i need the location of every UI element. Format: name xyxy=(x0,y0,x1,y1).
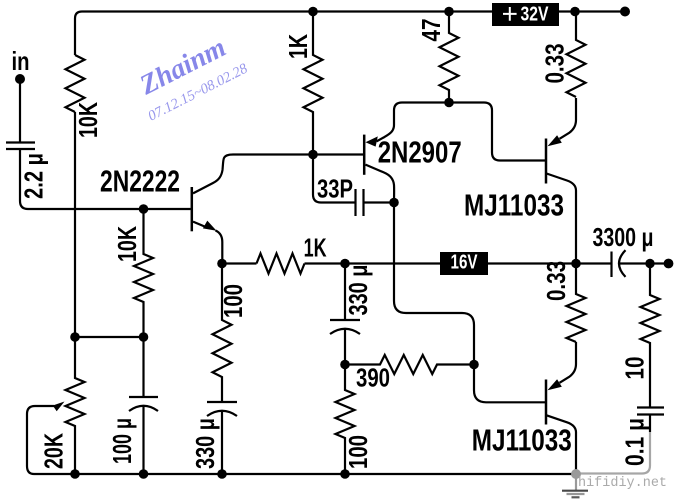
wire input to cap xyxy=(19,79,21,142)
svg-text:100: 100 xyxy=(343,435,373,469)
resistor 1K (feedback) xyxy=(257,254,305,274)
node 33P right xyxy=(389,198,399,208)
node (75,474) xyxy=(70,469,80,479)
wiper arrowhead xyxy=(53,402,65,412)
node Q1 emitter / 1K left xyxy=(217,259,227,269)
capacitor 0.1u xyxy=(637,408,664,433)
svg-text:2.2 μ: 2.2 μ xyxy=(19,153,49,199)
wire node to 33P cap xyxy=(313,155,356,203)
wire 10K bottom to node (75,337) xyxy=(74,112,76,337)
wiper wire of 20K pot xyxy=(27,406,54,474)
resistor 100 (right) xyxy=(336,365,355,475)
svg-text:10K: 10K xyxy=(112,226,142,262)
svg-text:330 μ: 330 μ xyxy=(343,265,373,316)
svg-text:10K: 10K xyxy=(73,102,103,138)
resistor 10K (left bias upper) xyxy=(66,55,85,112)
capacitor 100u xyxy=(129,337,158,474)
wire 47 node to Q3 base xyxy=(449,103,545,161)
node top of 0.33 xyxy=(570,7,580,17)
node output rail mid xyxy=(571,259,581,269)
svg-text:2N2222: 2N2222 xyxy=(100,164,180,199)
capacitor 330u (right) xyxy=(330,264,360,365)
resistor 390 xyxy=(345,355,474,374)
wire gray rail segment to ground node xyxy=(576,432,650,478)
ground xyxy=(575,478,577,490)
node 390 left xyxy=(340,360,350,370)
capacitor 2.2u xyxy=(6,143,35,150)
wire node row y=337 xyxy=(75,336,144,338)
wire output rail xyxy=(222,262,669,264)
wire Q4 collector to ground rail xyxy=(547,415,577,474)
node (222,474) xyxy=(217,469,227,479)
svg-text:in: in xyxy=(12,46,30,76)
wire 33P node down and over to driver xyxy=(394,203,474,365)
wire top rail +32V xyxy=(75,12,625,56)
svg-text:1K: 1K xyxy=(304,232,327,262)
node (143.5,337) xyxy=(139,332,149,342)
svg-text:10: 10 xyxy=(620,357,650,380)
svg-text:0.33: 0.33 xyxy=(541,261,571,301)
Q3 emitter arrowhead xyxy=(548,135,562,146)
node base divider junction xyxy=(139,204,149,214)
Q1 emitter arrowhead xyxy=(203,221,217,231)
node input terminal xyxy=(15,74,25,84)
node 47 bottom xyxy=(444,98,454,108)
svg-text:hifidiy.net: hifidiy.net xyxy=(578,475,667,491)
node output terminal xyxy=(664,259,674,269)
label 16V box xyxy=(440,252,488,275)
wire Q2 collector xyxy=(366,165,395,203)
potentiometer 20K xyxy=(66,337,85,474)
resistor 10 (Zobel) xyxy=(641,264,660,408)
svg-text:16V: 16V xyxy=(451,252,478,274)
wire 390 node to Q4 base xyxy=(474,365,545,403)
node 1K bottom xyxy=(308,150,318,160)
svg-text:100 μ: 100 μ xyxy=(107,418,137,464)
wire cap to base of 2N2222 xyxy=(20,149,191,209)
resistor 0.33 (top) xyxy=(567,12,586,98)
node +32V terminal xyxy=(620,7,630,17)
svg-text:MJ11033: MJ11033 xyxy=(464,188,564,223)
wire Q3 emitter from 0.33 xyxy=(560,98,577,139)
transistor Q4 MJ11033 bar xyxy=(545,380,548,425)
transistor Q2 2N2907 bar xyxy=(363,135,366,175)
node (75,337) xyxy=(70,332,80,342)
node 390 right xyxy=(469,360,479,370)
svg-text:3300 μ: 3300 μ xyxy=(593,222,654,252)
svg-text:32V: 32V xyxy=(521,4,550,26)
resistor 0.33 (bottom) xyxy=(567,264,586,343)
wire Q4 emitter from 0.33 xyxy=(560,342,577,383)
capacitor 330u (left) xyxy=(207,402,237,474)
svg-text:47: 47 xyxy=(416,19,446,42)
resistor 10K (lower bias) xyxy=(134,209,153,337)
svg-text:2N2907: 2N2907 xyxy=(378,134,462,169)
svg-text:330 μ: 330 μ xyxy=(190,418,220,469)
Q4 emitter arrowhead xyxy=(548,379,562,390)
capacitor 33P xyxy=(356,189,395,216)
node Zobel top xyxy=(645,259,654,268)
capacitor 3300u xyxy=(612,250,626,277)
node top of 1K xyxy=(308,7,318,17)
node (143.5,474) xyxy=(139,469,149,479)
svg-text:33P: 33P xyxy=(317,174,353,204)
node ground junction (gray) xyxy=(571,469,581,479)
transistor Q3 MJ11033 bar xyxy=(545,139,548,184)
wire Q1 emitter xyxy=(193,222,222,264)
wire Q3 collector to output rail xyxy=(547,174,577,264)
wire Q1 collector xyxy=(193,155,363,194)
transistor Q1 2N2222 bar xyxy=(191,187,194,231)
label +32V box xyxy=(492,3,559,26)
resistor 100 (Q1 emitter) xyxy=(213,264,232,403)
resistor 47 xyxy=(440,12,459,103)
svg-text:MJ11033: MJ11033 xyxy=(472,422,572,457)
wire bottom ground rail xyxy=(34,473,576,475)
svg-text:390: 390 xyxy=(356,362,390,392)
svg-text:20K: 20K xyxy=(39,433,69,469)
resistor 1K (top) xyxy=(304,12,323,155)
node top of 47 xyxy=(444,7,454,17)
node (345,474) xyxy=(340,469,350,479)
node 1K right xyxy=(340,259,350,269)
svg-text:100: 100 xyxy=(218,284,248,318)
svg-text:0.1 μ: 0.1 μ xyxy=(620,418,650,466)
svg-text:1K: 1K xyxy=(283,34,313,59)
svg-text:0.33: 0.33 xyxy=(540,44,570,84)
Q2 emitter arrowhead xyxy=(366,136,378,146)
wire Q2 emitter to 47 node xyxy=(377,103,450,142)
